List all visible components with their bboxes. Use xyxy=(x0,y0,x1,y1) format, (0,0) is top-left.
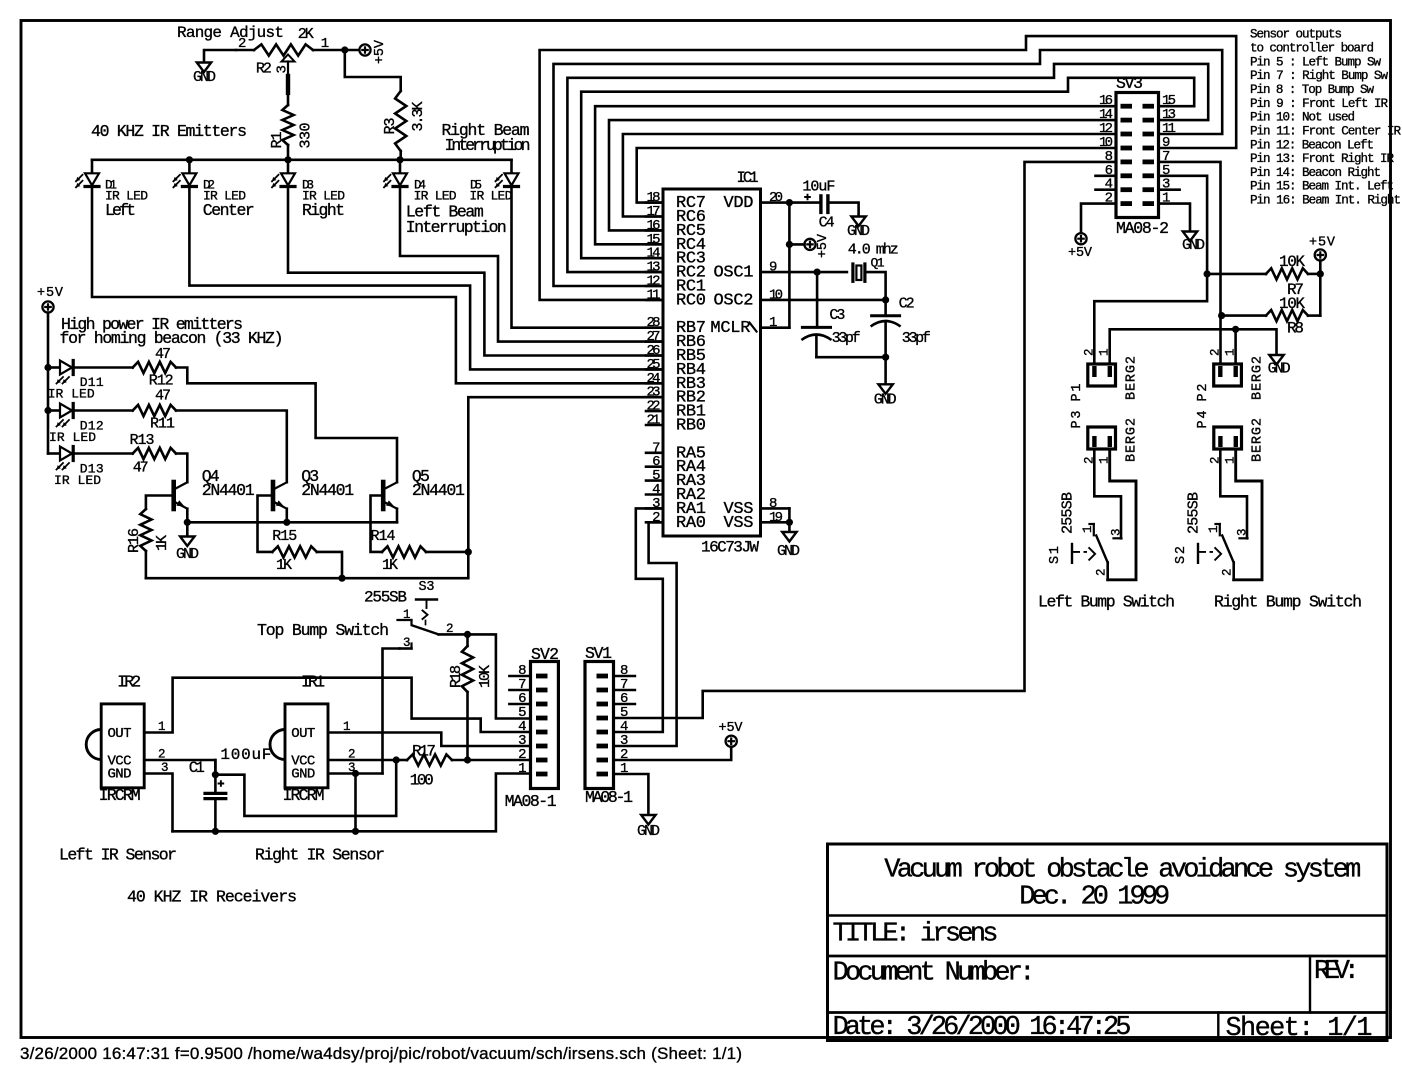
svg-text:C3: C3 xyxy=(829,307,845,324)
wire D5 cathode to IC RB7 xyxy=(512,188,664,328)
wire RC1 to SV3 pin 11 xyxy=(554,50,1223,286)
IC1 pin 5 RA3 xyxy=(646,479,663,482)
svg-text:Pin 12: Beacon Left: Pin 12: Beacon Left xyxy=(1250,138,1374,152)
SV2 pin 3 xyxy=(536,744,548,749)
+5V supply (MCLR) xyxy=(789,243,804,246)
wire ground bus xyxy=(173,774,531,832)
svg-text:SV2: SV2 xyxy=(531,645,559,664)
capacitor C3 33pf xyxy=(816,272,819,327)
svg-text:+5V: +5V xyxy=(1309,236,1336,251)
svg-text:255SB: 255SB xyxy=(1186,492,1203,534)
IC1 pin 26 RB5 xyxy=(646,354,663,357)
IC1 pin 28 RB7 xyxy=(646,326,663,329)
svg-text:IR2: IR2 xyxy=(117,673,141,692)
svg-text:MA08-1: MA08-1 xyxy=(585,788,633,807)
ground emitters xyxy=(186,522,189,536)
svg-text:+5V: +5V xyxy=(816,233,831,258)
wire D4 cathode to IC RB6 xyxy=(400,188,663,342)
wire P4 pin2 to S2 pin3 xyxy=(1220,449,1247,538)
IC1 pin 15 RC4 xyxy=(646,243,663,246)
svg-text:2K: 2K xyxy=(298,26,314,43)
svg-text:100: 100 xyxy=(410,772,434,790)
svg-text:Right IR Sensor: Right IR Sensor xyxy=(255,846,385,865)
svg-text:Interruption: Interruption xyxy=(445,136,531,155)
wire SV3 pin 7 to P2/R8 xyxy=(1159,162,1221,364)
svg-text:S2: S2 xyxy=(1174,546,1189,564)
IC1 pin 24 RB3 xyxy=(646,382,663,385)
svg-text:IR LED: IR LED xyxy=(48,387,95,402)
node +5V stub xyxy=(786,241,793,248)
IC1 pin 25 RB4 xyxy=(646,368,663,371)
svg-text:P2: P2 xyxy=(1196,384,1211,402)
ground VSS xyxy=(782,532,796,542)
SV1 pin 5 xyxy=(597,716,609,721)
svg-text:3: 3 xyxy=(275,65,291,73)
wire RA1 to SV1 pin 4 xyxy=(614,508,664,732)
svg-text:RC0: RC0 xyxy=(676,291,706,310)
svg-text:IR LED: IR LED xyxy=(469,189,512,204)
svg-text:R14: R14 xyxy=(371,528,396,545)
svg-text:Center: Center xyxy=(203,201,255,220)
svg-text:BERG2: BERG2 xyxy=(1125,356,1140,400)
svg-text:REV:: REV: xyxy=(1314,957,1360,987)
svg-text:VDD: VDD xyxy=(724,194,754,213)
node pot/R3/+5V junction xyxy=(341,46,348,53)
wire RC3 to SV3 pin 15 xyxy=(581,78,1194,258)
svg-text:MA08-1: MA08-1 xyxy=(505,792,557,811)
switch S3 255SB xyxy=(416,598,437,600)
svg-text:C1: C1 xyxy=(189,759,205,777)
svg-text:33pf: 33pf xyxy=(832,330,861,347)
svg-text:GND: GND xyxy=(108,767,132,783)
SV1 pin 7 stub xyxy=(614,689,635,692)
SV1 pin 7 xyxy=(597,688,609,693)
wire Q4 base / R16 xyxy=(146,496,172,510)
SV3 pin 5 xyxy=(1143,173,1155,178)
svg-text:Left IR Sensor: Left IR Sensor xyxy=(59,846,177,865)
svg-text:Q1: Q1 xyxy=(871,255,885,270)
node IR1 VCC/R17 xyxy=(393,756,400,763)
node bus/R3/D4 xyxy=(396,156,403,163)
svg-text:Pin 15: Beam Int. Left: Pin 15: Beam Int. Left xyxy=(1250,180,1394,194)
wire +5V to LED column xyxy=(47,313,50,454)
ground SV3 xyxy=(1183,232,1197,242)
wire RB2 to R14 node xyxy=(468,397,663,552)
svg-text:TITLE: irsens: TITLE: irsens xyxy=(833,920,999,950)
svg-text:Pin 11: Front Center IR: Pin 11: Front Center IR xyxy=(1250,124,1401,138)
+5V supply (top) xyxy=(345,49,359,52)
wire RC7 to SV3 pin 10 xyxy=(637,148,1116,203)
svg-text:+5V: +5V xyxy=(1068,246,1093,261)
svg-text:P4: P4 xyxy=(1196,411,1211,429)
node S3/R18 xyxy=(464,631,471,638)
wire VSS pins to GND xyxy=(788,508,791,532)
IR LED D12 xyxy=(48,409,60,412)
wire C3/C2 commons xyxy=(816,356,885,359)
wire RA0 to SV1 pin 3 xyxy=(614,522,677,746)
IC1 pin 10 OSC2 xyxy=(761,299,886,302)
SV2 pin 4 xyxy=(536,730,548,735)
node R7 right xyxy=(1317,270,1324,277)
node VSS junction xyxy=(786,519,793,526)
svg-text:2: 2 xyxy=(1095,568,1109,576)
node C1 bottom xyxy=(212,828,219,835)
svg-text:Pin 10: Not used: Pin 10: Not used xyxy=(1250,111,1355,125)
IC IR1 IRCRM IR receiver xyxy=(285,704,328,788)
svg-text:2N4401: 2N4401 xyxy=(301,481,354,500)
svg-text:R2: R2 xyxy=(256,61,272,78)
IC1 pin 2 RA0 xyxy=(646,521,663,524)
svg-text:1: 1 xyxy=(1207,525,1221,533)
svg-text:Sensor outputs: Sensor outputs xyxy=(1250,28,1342,42)
svg-text:10: 10 xyxy=(769,287,783,303)
wire base resistor bottom bus xyxy=(146,552,468,578)
svg-text:Pin 5 : Left Bump Sw: Pin 5 : Left Bump Sw xyxy=(1250,55,1381,69)
SV1 pin 3 xyxy=(597,744,609,749)
SV3 pin 11 xyxy=(1143,132,1155,137)
svg-text:47: 47 xyxy=(133,460,149,477)
svg-text:OSC2: OSC2 xyxy=(714,291,754,310)
svg-text:3.3K: 3.3K xyxy=(410,102,427,132)
svg-text:Pin 14: Beacon Right: Pin 14: Beacon Right xyxy=(1250,166,1381,180)
crystal Q1 4.0 mhz xyxy=(851,264,854,281)
wire LED anode bus xyxy=(92,159,512,162)
IC1 pin 12 RC1 xyxy=(646,285,663,288)
svg-text:Interruption: Interruption xyxy=(406,218,507,237)
wire SV1 pin 2 to +5V xyxy=(614,747,732,760)
ground SV1 xyxy=(641,815,655,825)
SV3 pin 1 xyxy=(1143,201,1155,206)
svg-text:IR LED: IR LED xyxy=(54,473,101,488)
IR LED D5 xyxy=(510,160,513,174)
svg-text:19: 19 xyxy=(769,510,783,526)
wire S3 pin3 to GND net xyxy=(400,647,412,650)
svg-text:10uF: 10uF xyxy=(802,179,835,196)
SV3 pin 13 xyxy=(1143,118,1155,123)
SV1 pin 4 xyxy=(597,730,609,735)
wire RC4 to SV3 pin 16 xyxy=(595,106,1116,244)
wire S3 to SV2 pin 5 xyxy=(468,634,531,718)
capacitor C4 10uF xyxy=(819,196,822,213)
node R14/RB2/base bus xyxy=(465,548,472,555)
svg-text:2: 2 xyxy=(1209,348,1223,356)
SV3 pin 4 stub xyxy=(1096,188,1117,191)
IC1 pin 23 RB2 xyxy=(646,396,663,399)
IC1 pin 14 RC3 xyxy=(646,257,663,260)
IC1 pin 1 MCLR xyxy=(761,326,790,329)
wire VDD down to MCLR xyxy=(788,203,791,328)
SV3 pin 16 xyxy=(1121,104,1133,109)
svg-text:3: 3 xyxy=(161,761,169,775)
wire D2 cathode to IC RB4 xyxy=(189,188,663,369)
svg-text:IR LED: IR LED xyxy=(49,430,96,445)
SV2 pin 7 stub xyxy=(509,689,530,692)
svg-text:RB0: RB0 xyxy=(676,417,706,436)
svg-text:40 KHZ IR Emitters: 40 KHZ IR Emitters xyxy=(91,122,247,141)
svg-text:2N4401: 2N4401 xyxy=(412,481,465,500)
svg-text:3: 3 xyxy=(1110,528,1124,536)
svg-text:1K: 1K xyxy=(382,557,398,574)
ground crystal caps xyxy=(884,357,887,384)
svg-text:P1: P1 xyxy=(1070,384,1085,402)
node VDD junction xyxy=(786,199,793,206)
svg-text:OUT: OUT xyxy=(291,726,315,742)
svg-text:SV1: SV1 xyxy=(585,644,612,663)
svg-text:+5V: +5V xyxy=(37,286,64,301)
svg-text:47: 47 xyxy=(155,388,171,405)
svg-text:10K: 10K xyxy=(1279,295,1305,313)
svg-text:IR1: IR1 xyxy=(301,673,325,692)
svg-text:for homing beacon (33 KHZ): for homing beacon (33 KHZ) xyxy=(60,329,284,348)
resistor R13 47 xyxy=(75,452,133,455)
wire +5V junction to R3 xyxy=(345,50,401,91)
IR LED D4 xyxy=(399,160,402,174)
SV2 pin 8 xyxy=(536,674,548,679)
SV3 pin 4 xyxy=(1121,187,1133,192)
wire IR1 OUT to SV2 pin 3 xyxy=(328,733,531,747)
svg-text:10K: 10K xyxy=(1279,253,1305,271)
wire Q5 base / R14 xyxy=(371,496,383,552)
SV1 pin 8 xyxy=(597,674,609,679)
IC1 pin 4 RA2 xyxy=(646,493,663,496)
svg-text:10K: 10K xyxy=(477,665,494,688)
svg-text:Left Bump Switch: Left Bump Switch xyxy=(1038,593,1175,612)
title block frame xyxy=(828,844,1388,1041)
svg-text:SV3: SV3 xyxy=(1116,74,1143,93)
IC1 pin 20 VDD xyxy=(761,201,790,204)
ground P1/P2 xyxy=(1269,355,1283,365)
svg-text:S3: S3 xyxy=(419,580,435,595)
resistor R17 100 xyxy=(407,754,452,765)
node OSC1/C3 xyxy=(814,269,821,276)
IC1 pin 16 RC5 xyxy=(646,229,663,232)
IR LED D13 xyxy=(48,452,60,455)
capacitor C1 100uF xyxy=(214,760,217,793)
IC1 pin 3 RA1 xyxy=(646,507,663,510)
wire D3 cathode to IC RB5 xyxy=(288,188,663,356)
svg-text:GND: GND xyxy=(777,543,800,560)
node C1/VCC link xyxy=(212,771,219,778)
svg-text:2: 2 xyxy=(348,748,356,762)
svg-text:16C73JW: 16C73JW xyxy=(701,539,759,557)
resistor R16 1K xyxy=(140,509,151,551)
IC1 pin 8 VSS xyxy=(761,507,790,510)
connector SV1 MA08-1 body xyxy=(585,662,614,789)
wire C4 to GND xyxy=(830,203,859,217)
svg-text:Pin 9 : Front Left IR: Pin 9 : Front Left IR xyxy=(1250,97,1388,111)
connector P4 BERG2 xyxy=(1214,427,1242,449)
IC1 pin 13 RC2 xyxy=(646,271,663,274)
resistor R11 47 xyxy=(75,409,133,412)
wire SV3 pin 5 to P1/R7 xyxy=(1094,176,1207,364)
wire R11 to Q3 collector xyxy=(176,411,287,483)
svg-text:C4: C4 xyxy=(819,215,835,232)
node OSC2/C2 xyxy=(882,296,889,303)
wire P1 pin1 / P2 pin1 to GND xyxy=(1110,329,1277,364)
ground C4 xyxy=(851,217,865,227)
SV1 pin 1 xyxy=(597,772,609,777)
svg-text:GND: GND xyxy=(193,69,216,86)
wire IR2 OUT to SV2 pin 4 xyxy=(144,678,530,733)
svg-text:1: 1 xyxy=(769,315,777,331)
svg-text:GND: GND xyxy=(847,223,870,240)
resistor R14 1K xyxy=(382,546,426,557)
SV2 pin 7 xyxy=(536,688,548,693)
svg-text:Right: Right xyxy=(302,201,345,220)
IC1 pin 21 RB0 xyxy=(646,424,663,427)
svg-text:+5V: +5V xyxy=(373,39,388,64)
SV3 pin 3 xyxy=(1143,187,1155,192)
node IR1 GND bus xyxy=(352,828,359,835)
switch S2 255SB xyxy=(1240,537,1248,539)
svg-text:GND: GND xyxy=(874,391,897,408)
svg-text:Left: Left xyxy=(105,201,136,220)
wire Q3 base / R15 xyxy=(258,496,273,552)
svg-text:BERG2: BERG2 xyxy=(1125,418,1140,462)
transistor Q4 2N4401 xyxy=(171,482,176,509)
wire IR1 GND xyxy=(328,772,383,775)
transistor Q5 2N4401 xyxy=(381,482,386,509)
op-amp/IC U1: PIC 16C73JW IC1 body xyxy=(663,189,761,536)
SV2 pin 5 xyxy=(536,716,548,721)
node bus/R1 xyxy=(284,156,291,163)
svg-text:+5V: +5V xyxy=(719,721,744,736)
svg-text:2: 2 xyxy=(1221,568,1235,576)
svg-text:R11: R11 xyxy=(150,416,175,433)
svg-text:RA0: RA0 xyxy=(676,514,706,533)
svg-text:33pf: 33pf xyxy=(902,330,931,347)
node cap common xyxy=(882,354,889,361)
node Q3 emitter xyxy=(283,519,290,526)
svg-text:Right Bump Switch: Right Bump Switch xyxy=(1214,593,1362,612)
svg-text:MCLR: MCLR xyxy=(710,319,750,338)
connector SV2 MA08-1 body xyxy=(531,662,559,789)
+5V supply (SV3) xyxy=(1075,233,1086,244)
resistor R15 1K xyxy=(272,546,317,557)
svg-text:R13: R13 xyxy=(130,432,155,449)
wire pot pin2 to GND xyxy=(204,50,236,63)
+5V supply (R7/R8) xyxy=(1315,249,1326,260)
svg-text:2: 2 xyxy=(446,622,454,636)
SV3 pin 7 xyxy=(1143,160,1155,165)
svg-text:Pin 16: Beam Int. Right: Pin 16: Beam Int. Right xyxy=(1250,194,1401,208)
wire RC2 to SV3 pin 13 xyxy=(567,64,1208,272)
svg-text:Document Number:: Document Number: xyxy=(833,959,1036,989)
svg-text:2: 2 xyxy=(1083,348,1097,356)
IR LED D1 xyxy=(91,160,94,174)
IR LED D2 xyxy=(188,160,191,174)
wire SV3 pin 2 to +5V xyxy=(1081,204,1116,233)
svg-text:Pin 13: Front Right IR: Pin 13: Front Right IR xyxy=(1250,152,1394,166)
wire P3 pin2 to S1 pin3 xyxy=(1094,449,1121,538)
svg-text:1: 1 xyxy=(1081,525,1095,533)
node IR1 GND drop xyxy=(352,770,359,777)
IC1 pin 9 OSC1 xyxy=(761,271,818,274)
capacitor C2 33pf xyxy=(884,300,887,316)
svg-text:3/26/2000 16:47:31 f=0.9500: 3/26/2000 16:47:31 f=0.9500 /home/wa4dsy… xyxy=(20,1044,742,1063)
wire R15 to bottom bus xyxy=(317,552,342,578)
svg-text:R17: R17 xyxy=(412,743,436,761)
wire SV3 pin 1 to GND xyxy=(1159,204,1191,232)
svg-text:VSS: VSS xyxy=(724,514,754,533)
node R17/R18 xyxy=(464,756,471,763)
svg-text:P3: P3 xyxy=(1070,411,1085,429)
svg-text:GND: GND xyxy=(176,546,199,563)
resistor R18 10K xyxy=(466,634,469,646)
svg-text:R15: R15 xyxy=(272,528,297,545)
IC1 pin 19 VSS xyxy=(761,521,790,524)
svg-text:47: 47 xyxy=(155,346,171,363)
svg-text:330: 330 xyxy=(298,123,315,149)
IC1 pin 11 RC0 xyxy=(646,299,663,302)
svg-text:Vacuum robot obstacle avoidanc: Vacuum robot obstacle avoidance system xyxy=(884,856,1361,886)
wire VCC link bus xyxy=(215,760,396,816)
svg-text:IRCRM: IRCRM xyxy=(99,786,141,805)
svg-text:OSC1: OSC1 xyxy=(714,264,754,283)
SV1 pin 6 stub xyxy=(614,703,635,706)
svg-text:IRCRM: IRCRM xyxy=(283,786,325,805)
SV1 pin 2 xyxy=(597,758,609,763)
svg-text:Sheet: 1/1: Sheet: 1/1 xyxy=(1226,1014,1373,1044)
wire VDD to C4 xyxy=(789,201,819,204)
SV2 pin 8 stub xyxy=(509,675,530,678)
SV3 pin 3 stub xyxy=(1159,188,1180,191)
svg-text:Pin 7 : Right Bump Sw: Pin 7 : Right Bump Sw xyxy=(1250,69,1388,83)
IC IR2 IRCRM IR receiver xyxy=(101,704,144,788)
+5V supply (SV1) xyxy=(726,736,737,747)
svg-text:R1: R1 xyxy=(269,132,286,149)
svg-text:Top Bump Switch: Top Bump Switch xyxy=(257,621,389,640)
switch S1 255SB xyxy=(1114,537,1122,539)
svg-text:9: 9 xyxy=(769,260,777,276)
IR LED D3 xyxy=(287,160,290,174)
ground pot xyxy=(197,63,211,73)
wire RC5 to SV3 pin 14 xyxy=(609,120,1116,230)
svg-text:GND: GND xyxy=(1268,361,1291,378)
svg-text:1K: 1K xyxy=(276,557,292,574)
IC1 pin 6 RA4 xyxy=(646,465,663,468)
potentiometer R2 2K xyxy=(254,44,313,55)
svg-text:C2: C2 xyxy=(899,295,915,312)
SV3 pin 14 xyxy=(1121,118,1133,123)
node D11 anode xyxy=(44,364,51,371)
SV3 pin 10 xyxy=(1121,146,1133,151)
svg-text:1: 1 xyxy=(403,608,411,622)
svg-text:40 KHZ IR Receivers: 40 KHZ IR Receivers xyxy=(127,888,297,907)
svg-text:BERG2: BERG2 xyxy=(1251,356,1266,400)
IC1 pin 27 RB6 xyxy=(646,340,663,343)
wire D1 cathode to IC RB3 xyxy=(92,188,663,383)
SV2 pin 6 stub xyxy=(509,703,530,706)
svg-text:2N4401: 2N4401 xyxy=(202,481,255,500)
wire emitter bus xyxy=(186,509,189,523)
svg-text:R3: R3 xyxy=(382,118,399,135)
svg-text:Date: 3/26/2000 16:47:25: Date: 3/26/2000 16:47:25 xyxy=(833,1013,1132,1043)
svg-text:GND: GND xyxy=(637,823,660,840)
connector P1 BERG2 xyxy=(1088,364,1116,386)
svg-text:Pin 8 : Top Bump Sw: Pin 8 : Top Bump Sw xyxy=(1250,83,1374,97)
svg-text:R16: R16 xyxy=(126,528,143,553)
svg-text:S1: S1 xyxy=(1048,546,1063,564)
svg-text:1K: 1K xyxy=(154,535,171,551)
svg-text:20: 20 xyxy=(769,190,783,206)
SV3 pin 15 xyxy=(1143,104,1155,109)
svg-text:BERG2: BERG2 xyxy=(1251,418,1266,462)
svg-text:OUT: OUT xyxy=(108,726,132,742)
SV2 pin 6 xyxy=(536,702,548,707)
IC1 pin 18 RC7 xyxy=(646,201,663,204)
node R7 tap xyxy=(1204,270,1211,277)
